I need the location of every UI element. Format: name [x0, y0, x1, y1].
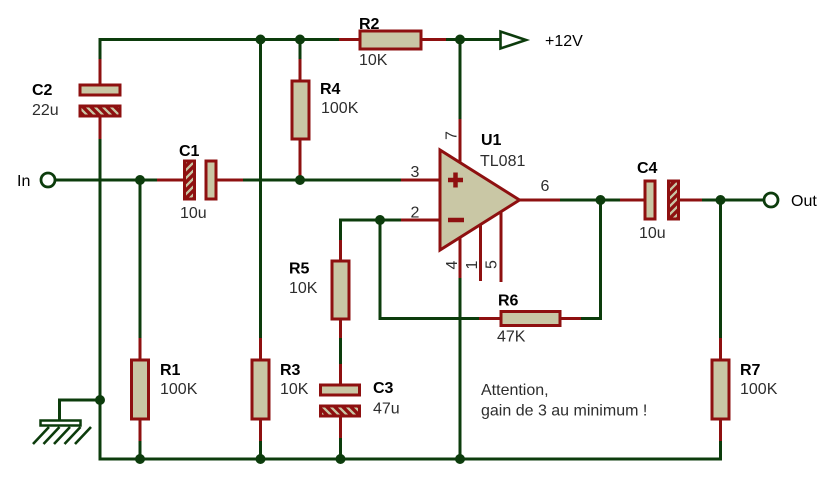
lead R6 left [479, 317, 501, 320]
lead R3 bottom [259, 419, 262, 441]
wire pin7 supply column [459, 40, 462, 165]
junction output/R7 [716, 195, 726, 205]
svg-text:C1: C1 [179, 143, 200, 160]
svg-text:100K: 100K [160, 381, 198, 398]
op-amp U1 triangle [440, 150, 520, 250]
pin 2 lead [401, 219, 440, 222]
junction rail R3 [256, 454, 266, 464]
resistor R2 [360, 31, 421, 49]
supply +12V arrow [501, 32, 527, 49]
lead R5 top [339, 240, 342, 261]
lead R2 right [421, 38, 446, 41]
lead R1 top [139, 338, 142, 360]
capacitor C3 plate top [321, 385, 360, 395]
svg-text:R7: R7 [740, 362, 761, 379]
op-amp minus mark [448, 218, 464, 223]
svg-text:1: 1 [464, 260, 481, 269]
lead R1 bottom [139, 419, 142, 441]
capacitor C4 plate right hatched [669, 181, 679, 219]
resistor R1 [132, 360, 149, 419]
ground symbol [33, 421, 91, 445]
junction rail pin4 [455, 454, 465, 464]
wire input net In to pin 3 [56, 179, 440, 182]
lead R5 bottom [339, 319, 342, 338]
svg-text:TL081: TL081 [480, 153, 525, 170]
port In circle [41, 173, 55, 187]
wire R1 column [139, 180, 142, 459]
svg-text:22u: 22u [32, 102, 59, 119]
port Out circle [764, 193, 778, 207]
capacitor C4 gap cover [657, 193, 669, 207]
svg-text:10K: 10K [289, 280, 318, 297]
svg-text:10u: 10u [180, 205, 207, 222]
capacitor C1 plate left hatched [185, 161, 195, 199]
svg-text:4: 4 [444, 260, 461, 269]
capacitor C1 plate right [206, 161, 216, 199]
lead R3 top [259, 338, 262, 360]
svg-text:100K: 100K [740, 381, 778, 398]
svg-text:C3: C3 [373, 380, 394, 397]
svg-text:R1: R1 [160, 362, 181, 379]
svg-text:5: 5 [484, 260, 501, 269]
lead R7 bottom [719, 419, 722, 441]
svg-text:R2: R2 [359, 16, 380, 33]
pin 5 lead [500, 208, 503, 282]
capacitor C2 plate bottom hatched [80, 106, 120, 116]
junction pin2/feedback [375, 215, 385, 225]
svg-text:10u: 10u [639, 225, 666, 242]
junction rail R1 [135, 454, 145, 464]
svg-text:R3: R3 [280, 362, 301, 379]
svg-text:C4: C4 [637, 160, 658, 177]
resistor R5 [332, 261, 349, 319]
svg-text:47K: 47K [497, 329, 526, 346]
wire ground stub [60, 400, 101, 421]
capacitor C1 gap cover [196, 173, 206, 187]
svg-text:47u: 47u [373, 401, 400, 418]
resistor R4 [292, 81, 309, 139]
junction R4 bottom [295, 175, 305, 185]
lead C4 right [680, 199, 702, 202]
resistor R7 [712, 360, 729, 419]
capacitor C3 gap cover [334, 396, 348, 406]
lead C1 left [157, 179, 184, 182]
junction rail C3 [336, 454, 346, 464]
wire feedback loop pin2 to R6 to output [380, 200, 601, 319]
wire output net to Out port [520, 199, 764, 202]
svg-text:100K: 100K [321, 100, 359, 117]
svg-text:3: 3 [411, 164, 420, 181]
pin 7 lead [459, 119, 462, 164]
lead R4 bottom [299, 139, 302, 180]
lead R6 right [560, 317, 581, 320]
svg-text:6: 6 [541, 178, 550, 195]
svg-text:R4: R4 [320, 81, 341, 98]
svg-text:+12V: +12V [545, 33, 583, 50]
svg-text:R5: R5 [289, 261, 310, 278]
svg-text:C2: C2 [32, 82, 53, 99]
svg-text:10K: 10K [359, 52, 388, 69]
wire pin2 to R5/C3 column [341, 220, 441, 459]
lead C2 bottom [99, 116, 102, 139]
junction ground tap [95, 395, 105, 405]
svg-text:U1: U1 [481, 132, 502, 149]
lead C2 top [99, 59, 102, 85]
lead C3 bottom [339, 416, 342, 438]
capacitor C2 gap cover [93, 96, 107, 106]
op-amp plus mark [448, 173, 463, 188]
svg-text:gain de 3 au minimum !: gain de 3 au minimum ! [481, 403, 647, 420]
pin 1 lead [479, 220, 482, 281]
wire R3 column [259, 40, 262, 460]
junction top R4 column [295, 35, 305, 45]
pin 3 lead [401, 179, 440, 182]
pin 4 lead [459, 232, 462, 278]
junction In/R1 [135, 175, 145, 185]
wire R4 column [299, 40, 302, 181]
svg-text:R6: R6 [498, 293, 519, 310]
capacitor C3 plate bottom hatched [321, 406, 360, 416]
pin 6 lead [519, 199, 560, 202]
lead C1 right [216, 179, 243, 182]
svg-text:Out: Out [791, 193, 817, 210]
lead C4 left [620, 199, 644, 202]
lead R4 top [299, 59, 302, 81]
wire pin4 to ground rail [459, 240, 462, 459]
resistor R6 [501, 312, 560, 326]
wire top/left/bottom/right main loop [100, 40, 721, 460]
junction top supply [455, 35, 465, 45]
junction top R3 column [256, 35, 266, 45]
svg-text:Attention,: Attention, [481, 382, 549, 399]
capacitor C2 plate top [80, 85, 120, 95]
svg-text:10K: 10K [280, 381, 309, 398]
lead R2 left [339, 38, 360, 41]
resistor R3 [252, 360, 269, 419]
svg-text:In: In [17, 173, 30, 190]
capacitor C4 plate left [645, 181, 655, 219]
svg-text:2: 2 [411, 205, 420, 222]
lead C3 top [339, 364, 342, 385]
junction output/feedback [596, 195, 606, 205]
svg-text:7: 7 [444, 131, 461, 140]
lead R7 top [719, 338, 722, 360]
